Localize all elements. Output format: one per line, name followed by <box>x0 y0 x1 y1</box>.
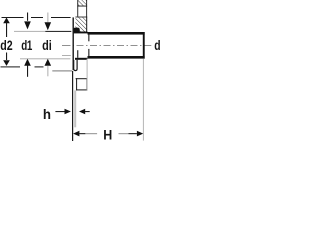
svg-text:H: H <box>103 127 112 143</box>
svg-text:d1: d1 <box>21 37 32 53</box>
svg-text:d: d <box>154 37 160 53</box>
svg-text:di: di <box>42 38 52 54</box>
svg-text:d2: d2 <box>0 38 12 54</box>
svg-text:h: h <box>43 107 51 122</box>
